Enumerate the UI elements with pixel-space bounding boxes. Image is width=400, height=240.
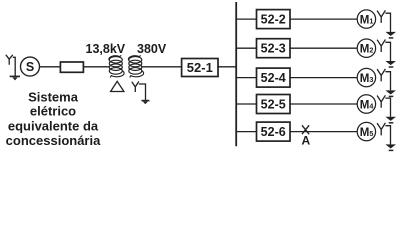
svg-text:52-5: 52-5 — [261, 97, 286, 111]
svg-text:M5: M5 — [360, 127, 374, 139]
svg-text:elétrico: elétrico — [30, 104, 76, 119]
svg-text:concessionária: concessionária — [6, 133, 101, 148]
svg-text:Sistema: Sistema — [28, 89, 79, 104]
svg-text:52-3: 52-3 — [261, 42, 286, 56]
svg-text:52-6: 52-6 — [261, 125, 286, 139]
svg-text:52-2: 52-2 — [261, 13, 286, 27]
svg-text:M3: M3 — [360, 73, 374, 85]
svg-text:52-4: 52-4 — [261, 71, 286, 85]
svg-text:A: A — [301, 134, 310, 148]
svg-text:380V: 380V — [137, 42, 167, 56]
svg-text:S: S — [26, 60, 34, 74]
svg-text:52-1: 52-1 — [187, 60, 213, 75]
svg-text:M2: M2 — [360, 44, 374, 56]
svg-text:equivalente da: equivalente da — [8, 118, 99, 133]
svg-text:M4: M4 — [360, 99, 374, 111]
svg-text:13,8kV: 13,8kV — [86, 42, 126, 56]
svg-text:M1: M1 — [360, 14, 374, 26]
